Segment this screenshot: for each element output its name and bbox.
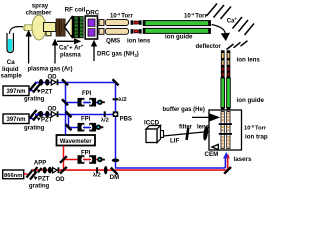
Ca liquid sample test tube	[7, 33, 13, 53]
ion lens electrodes (horizontal, black/red) top row	[131, 20, 142, 25]
svg-text:OD: OD	[48, 74, 58, 80]
turning mirror bottom right	[224, 167, 231, 174]
svg-text:PZT: PZT	[41, 90, 53, 96]
svg-text:Ca++ Ar+: Ca++ Ar+	[59, 44, 84, 52]
deflector hatch upper group	[207, 4, 232, 20]
anamorphic prism pair	[34, 167, 38, 172]
svg-text:DRC gas (NH3): DRC gas (NH3)	[97, 51, 139, 58]
dichroic mirror DM	[111, 168, 118, 175]
half-wave plate row 2	[104, 111, 106, 117]
svg-text:PZT: PZT	[38, 177, 50, 183]
397nm laser #2 box	[3, 114, 29, 124]
Ca+ curved arrow through deflector	[212, 25, 226, 34]
svg-text:APP: APP	[34, 161, 46, 167]
svg-text:λ/2: λ/2	[119, 97, 127, 103]
svg-text:plasma gas (Ar): plasma gas (Ar)	[28, 67, 73, 73]
Wavemeter box	[57, 135, 96, 146]
PZT arrow #1	[37, 89, 41, 93]
grating #1	[30, 82, 41, 93]
DRC gas arrow	[93, 46, 95, 62]
svg-text:OD: OD	[56, 177, 66, 183]
splitter 866	[60, 167, 67, 174]
svg-text:PBS: PBS	[120, 116, 132, 122]
svg-text:10-4Torr: 10-4Torr	[184, 11, 207, 19]
svg-text:grating: grating	[24, 126, 45, 132]
collection lens	[203, 126, 209, 141]
svg-text:ICCD: ICCD	[144, 120, 160, 127]
ion lens electrodes bottom row	[131, 29, 142, 33]
plasma arrow (horizontal)	[57, 40, 75, 42]
beam: FPI3 row	[64, 159, 100, 161]
beam arrowhead into trap	[223, 152, 230, 158]
svg-text:lasers: lasers	[234, 156, 252, 163]
half-wave plate on V (row1)	[113, 98, 119, 100]
svg-text:sample: sample	[1, 72, 23, 79]
CEM detector	[212, 144, 218, 149]
397nm laser #1 box	[3, 86, 29, 96]
FPI2 mirror on V2	[66, 124, 72, 130]
svg-text:DM: DM	[110, 175, 119, 181]
splitter row 1	[62, 79, 68, 85]
lens on 397 V before DM	[112, 159, 119, 163]
beam: 866 main	[32, 169, 228, 171]
svg-text:λ/2: λ/2	[93, 173, 101, 179]
svg-text:ion lens: ion lens	[127, 38, 151, 45]
DRC cell box	[85, 16, 97, 39]
svg-text:ion lens: ion lens	[237, 57, 261, 64]
svg-text:ion trap: ion trap	[245, 134, 268, 141]
svg-text:10-4Torr: 10-4Torr	[110, 11, 133, 19]
beam: V down from right mirror through PBS to DM	[115, 83, 117, 168]
deflector hatch lower group	[227, 41, 248, 50]
octopole grid (dark green cells)	[74, 16, 84, 38]
svg-text:ion guide: ion guide	[237, 97, 265, 104]
svg-text:CEM: CEM	[205, 151, 219, 158]
ion trap electrode columns	[219, 112, 232, 149]
ICCD camera icon	[146, 126, 164, 143]
svg-text:lens: lens	[197, 124, 210, 130]
beam: FPI1 row	[66, 102, 100, 104]
beam: V2 down to FPI2	[68, 115, 70, 128]
plasma gas arrows	[28, 35, 30, 64]
deflector hatch middle group	[233, 17, 255, 35]
nebulizer	[25, 25, 34, 31]
RF coil turns	[56, 24, 66, 32]
plasma torch	[44, 23, 56, 32]
combined beams to trap	[115, 167, 225, 169]
optical diode row 2	[51, 112, 56, 117]
vacuum chamber box	[209, 110, 242, 150]
lenses 866	[43, 167, 47, 174]
svg-text:FPI: FPI	[82, 91, 92, 97]
svg-text:λ/2: λ/2	[101, 118, 109, 124]
svg-text:866nm: 866nm	[4, 173, 22, 179]
optical diode row 1	[51, 80, 56, 85]
lens on 866 before DM	[104, 166, 108, 174]
lenses row 2	[39, 111, 43, 118]
ion guide (horizontal green bars)	[143, 21, 210, 26]
beam: 397 #2 main	[35, 114, 113, 116]
mirror row 1 right	[113, 79, 119, 85]
half-wave plate 866	[96, 167, 98, 173]
LIF optical path	[163, 132, 209, 137]
FPI1 mirror on V1	[62, 99, 68, 105]
grating #3	[27, 170, 37, 180]
svg-text:filter: filter	[179, 124, 193, 130]
svg-text:Wavemeter: Wavemeter	[60, 139, 92, 145]
wire: box to grating	[29, 90, 33, 92]
beam: V1 down to wavemeter	[65, 83, 67, 136]
svg-text:spray: spray	[32, 3, 49, 10]
svg-text:ion guide: ion guide	[165, 34, 193, 41]
optical diode 866	[53, 168, 58, 173]
svg-text:10-9Torr: 10-9Torr	[244, 123, 267, 131]
svg-text:buffer gas (He): buffer gas (He)	[163, 107, 205, 113]
PBS cube	[113, 111, 119, 117]
svg-text:LIF: LIF	[170, 138, 179, 145]
svg-text:397nm: 397nm	[6, 89, 25, 95]
svg-text:grating: grating	[24, 97, 45, 103]
svg-text:deflector: deflector	[196, 44, 222, 50]
FPI3 mirror	[60, 156, 67, 163]
svg-text:PZT: PZT	[41, 118, 53, 124]
svg-text:grating: grating	[29, 184, 50, 190]
filter	[185, 127, 189, 140]
splitter row 2	[66, 111, 72, 117]
QMS rods (wheat)	[99, 20, 104, 26]
spray chamber ellipse	[32, 15, 46, 40]
svg-text:397nm: 397nm	[6, 117, 25, 123]
DRC electrodes (purple)	[88, 19, 95, 26]
866nm laser box	[3, 170, 24, 179]
capillary tube from sample to nebulizer	[10, 27, 26, 34]
grating #2	[30, 110, 41, 121]
svg-text:FPI: FPI	[81, 117, 91, 123]
svg-text:QMS: QMS	[106, 38, 120, 45]
svg-text:plasma: plasma	[60, 53, 81, 59]
trap end plates	[219, 123, 232, 125]
sampler cone	[65, 17, 72, 37]
lenses row 1	[39, 79, 43, 86]
beam: V3 red up to wavemeter	[63, 146, 65, 170]
interface plate	[72, 16, 74, 38]
vertical ion guide (green bars)	[221, 78, 225, 108]
svg-text:RF coil: RF coil	[65, 7, 86, 14]
vertical ion lens rods (right, black with tan and dark-red electrodes)	[221, 50, 230, 78]
beam: 397 #1 main	[35, 82, 116, 84]
